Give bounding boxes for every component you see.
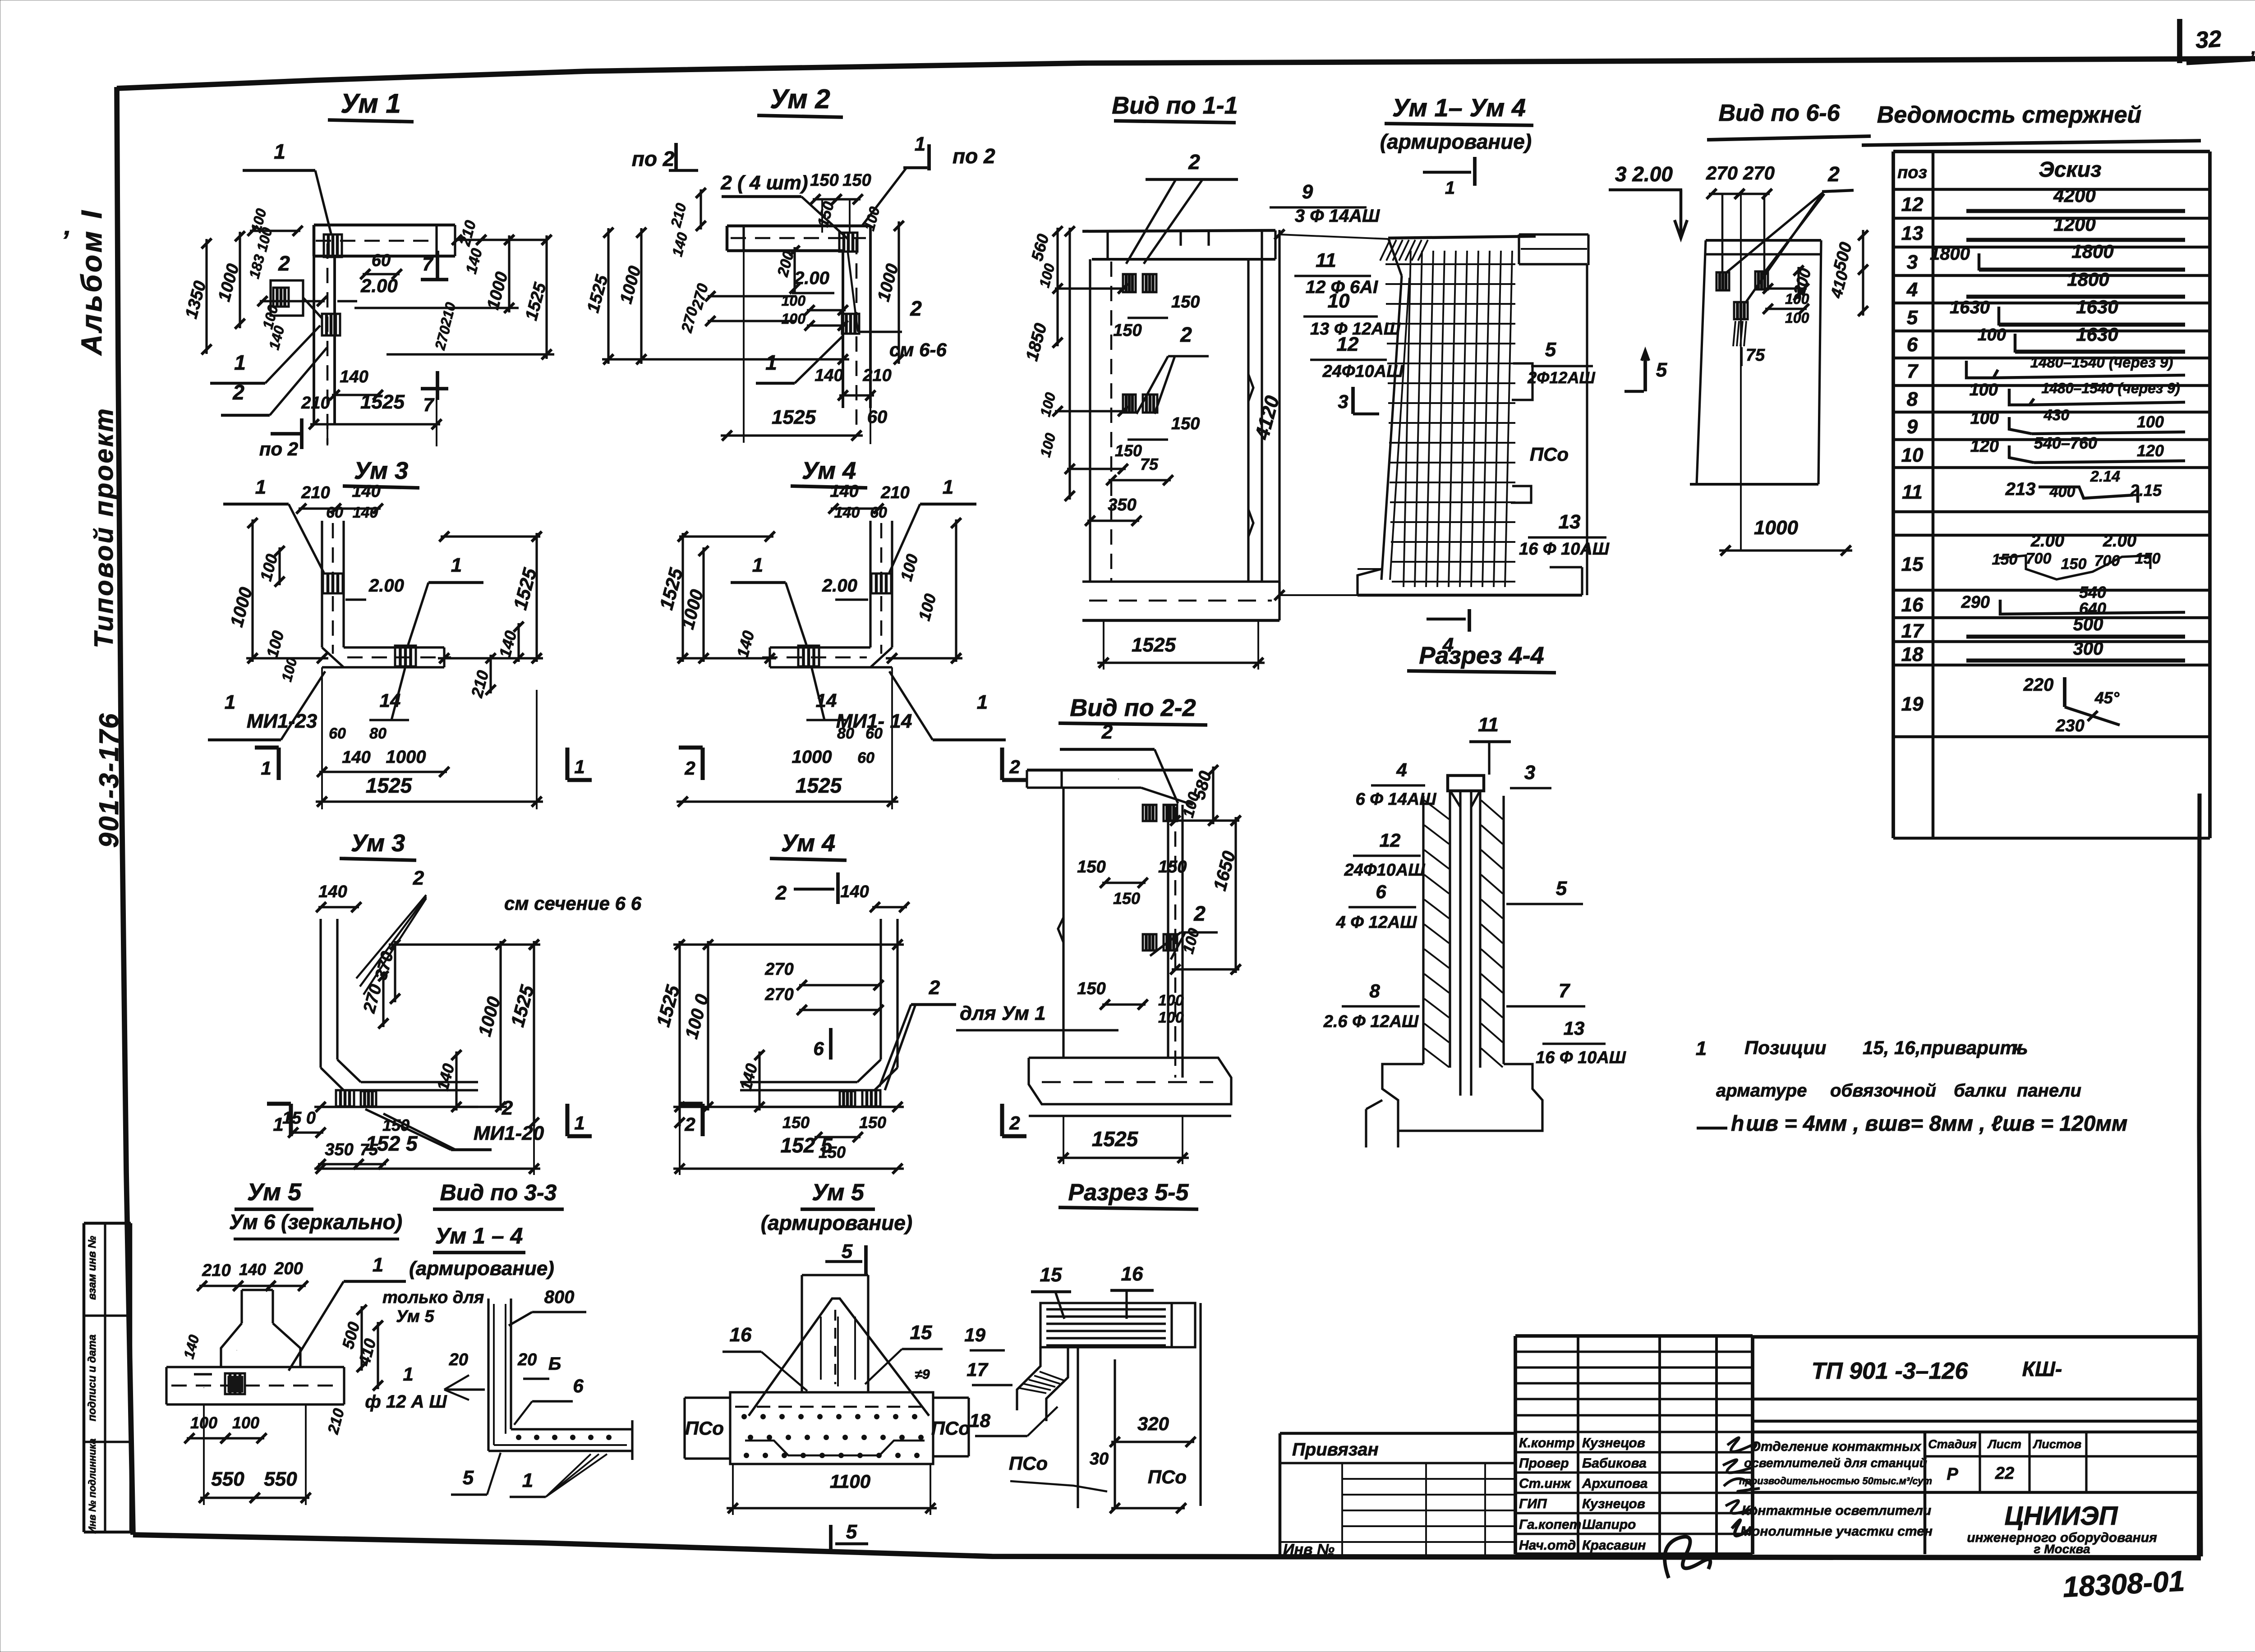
svg-text:1: 1	[1696, 1037, 1707, 1060]
svg-text:150: 150	[782, 1113, 810, 1132]
svg-text:1: 1	[1445, 178, 1455, 198]
svg-text:60: 60	[329, 725, 346, 742]
svg-text:(армирование): (армирование)	[409, 1257, 554, 1280]
svg-text:60: 60	[857, 749, 874, 766]
svg-text:см сечение 6 6: см сечение 6 6	[504, 893, 642, 914]
svg-text:901-3-176: 901-3-176	[94, 712, 124, 848]
svg-text:Бабикова: Бабикова	[1582, 1456, 1647, 1471]
svg-text:540: 540	[2079, 583, 2106, 601]
svg-text:150: 150	[1115, 441, 1142, 460]
svg-text:100: 100	[1970, 409, 1999, 428]
svg-text:ЦНИИЭП: ЦНИИЭП	[2004, 1501, 2118, 1531]
svg-text:8: 8	[1369, 980, 1380, 1001]
svg-text:Ум 2: Ум 2	[770, 84, 830, 114]
svg-text:80: 80	[369, 725, 387, 742]
svg-text:9: 9	[1302, 181, 1313, 203]
svg-text:1: 1	[261, 757, 271, 779]
svg-text:Контактные осветлители: Контактные осветлители	[1742, 1503, 1931, 1518]
svg-text:Стадия: Стадия	[1928, 1437, 1977, 1451]
svg-text:18: 18	[1901, 643, 1924, 665]
svg-text:для Ум 1: для Ум 1	[960, 1002, 1046, 1024]
svg-text:100: 100	[1158, 1009, 1184, 1026]
svg-text:16: 16	[730, 1324, 752, 1346]
svg-text:19: 19	[964, 1324, 985, 1345]
svg-text:2: 2	[1827, 162, 1840, 186]
svg-text:взам инв №: взам инв №	[86, 1236, 98, 1300]
svg-text:2.14: 2.14	[2090, 468, 2120, 485]
svg-text:140: 140	[840, 882, 869, 901]
svg-text:32: 32	[2195, 26, 2223, 54]
svg-text:1: 1	[373, 1254, 383, 1276]
svg-text:Га.копет: Га.копет	[1519, 1517, 1581, 1532]
svg-text:100: 100	[2137, 413, 2164, 431]
svg-text:140: 140	[342, 748, 370, 767]
svg-text:,: ,	[2250, 38, 2255, 58]
svg-text:1: 1	[574, 1112, 584, 1133]
svg-text:5: 5	[842, 1240, 853, 1262]
svg-text:ГИП: ГИП	[1519, 1496, 1547, 1511]
svg-text:Ум 3: Ум 3	[351, 830, 405, 857]
svg-text:Ум 1– Ум 4: Ум 1– Ум 4	[1392, 93, 1526, 122]
svg-text:2: 2	[232, 381, 244, 404]
svg-text:ТП 901 -3–126: ТП 901 -3–126	[1812, 1358, 1969, 1384]
svg-text:2 ( 4 шт): 2 ( 4 шт)	[720, 172, 808, 194]
svg-text:152 5: 152 5	[365, 1132, 418, 1155]
svg-text:2: 2	[684, 1114, 695, 1135]
svg-text:Нач.отд: Нач.отд	[1519, 1538, 1576, 1553]
svg-text:300: 300	[2073, 639, 2103, 659]
svg-text:150: 150	[859, 1113, 886, 1132]
svg-text:16: 16	[1121, 1263, 1143, 1285]
svg-text:120: 120	[2137, 441, 2164, 460]
svg-text:17: 17	[966, 1359, 988, 1380]
svg-text:3: 3	[1907, 251, 1918, 273]
svg-text:270: 270	[1743, 162, 1775, 184]
svg-text:9: 9	[1907, 416, 1918, 438]
svg-text:140: 140	[815, 366, 843, 385]
svg-text:Ведомость стержней: Ведомость стержней	[1877, 102, 2142, 128]
svg-text:Отделение контактных: Отделение контактных	[1750, 1439, 1922, 1454]
svg-text:2.00: 2.00	[822, 576, 857, 596]
svg-text:10: 10	[1901, 444, 1924, 466]
svg-text:550: 550	[211, 1468, 244, 1490]
svg-text:Ум 6 (зеркально): Ум 6 (зеркально)	[229, 1210, 402, 1234]
svg-text:150: 150	[1171, 293, 1200, 312]
svg-text:осветлителей для станций: осветлителей для станций	[1744, 1456, 1927, 1470]
svg-text:60: 60	[865, 725, 883, 742]
svg-text:1100: 1100	[830, 1471, 870, 1492]
svg-text:Кузнецов: Кузнецов	[1582, 1436, 1645, 1450]
svg-text:230: 230	[2055, 716, 2084, 735]
svg-text:Ум 3: Ум 3	[354, 457, 408, 484]
svg-text:150: 150	[1171, 414, 1200, 433]
svg-text:400: 400	[2049, 483, 2076, 500]
svg-text:150: 150	[1113, 889, 1140, 908]
svg-text:24Ф10АШ: 24Ф10АШ	[1322, 362, 1404, 381]
svg-text:1: 1	[255, 476, 266, 498]
svg-text:1000: 1000	[1754, 517, 1798, 539]
svg-text:4200: 4200	[2053, 185, 2095, 206]
svg-text:24Ф10АШ: 24Ф10АШ	[1344, 861, 1426, 880]
svg-text:2.00: 2.00	[2103, 532, 2136, 551]
svg-text:1: 1	[574, 756, 584, 777]
svg-text:8: 8	[1907, 388, 1918, 410]
svg-text:7: 7	[422, 253, 433, 275]
svg-text:18: 18	[969, 1410, 990, 1431]
svg-text:22: 22	[1995, 1464, 2014, 1483]
svg-text:Провер: Провер	[1519, 1456, 1569, 1471]
svg-text:Р: Р	[1947, 1465, 1958, 1484]
svg-text:1525: 1525	[360, 391, 405, 413]
svg-text:КШ-: КШ-	[2022, 1357, 2062, 1381]
svg-text:5: 5	[1907, 307, 1918, 329]
svg-text:2: 2	[910, 297, 922, 320]
svg-text:ПСо: ПСо	[931, 1418, 970, 1439]
svg-text:2.00: 2.00	[794, 268, 829, 288]
svg-text:1: 1	[915, 133, 925, 155]
svg-text:12: 12	[1380, 830, 1401, 851]
svg-text:100: 100	[1978, 326, 2006, 344]
svg-text:7: 7	[1559, 980, 1571, 1002]
svg-text:75: 75	[1140, 455, 1159, 473]
svg-text:5: 5	[463, 1467, 474, 1489]
svg-text:150: 150	[2135, 550, 2161, 567]
svg-text:16 Ф 10АШ: 16 Ф 10АШ	[1519, 540, 1610, 559]
svg-text:Монолитные участки стен: Монолитные участки стен	[1740, 1524, 1933, 1539]
svg-text:140: 140	[318, 882, 347, 901]
svg-text:2: 2	[929, 977, 940, 999]
svg-text:Вид по 3-3: Вид по 3-3	[440, 1180, 557, 1205]
svg-text:Листов: Листов	[2033, 1437, 2082, 1451]
svg-text:220: 220	[2023, 675, 2054, 695]
svg-text:Вид по 2-2: Вид по 2-2	[1070, 694, 1196, 721]
svg-text:Ум 5: Ум 5	[247, 1179, 302, 1206]
svg-text:Альбом I: Альбом I	[75, 208, 108, 356]
svg-text:1480–1540 (через 9): 1480–1540 (через 9)	[2030, 354, 2173, 371]
svg-text:210: 210	[301, 483, 330, 502]
svg-text:2: 2	[775, 882, 787, 904]
svg-text:213: 213	[2005, 479, 2036, 499]
svg-text:5: 5	[1556, 877, 1567, 899]
svg-text:540–760: 540–760	[2034, 434, 2097, 452]
svg-text:5: 5	[846, 1521, 857, 1543]
svg-text:150: 150	[1077, 858, 1105, 876]
svg-text:210: 210	[862, 366, 891, 385]
svg-text:‚: ‚	[64, 210, 72, 240]
svg-text:19: 19	[1901, 693, 1924, 715]
svg-text:120: 120	[1970, 437, 1999, 456]
svg-text:Привязан: Привязан	[1292, 1440, 1379, 1459]
svg-text:10: 10	[1328, 290, 1350, 312]
svg-text:30: 30	[1090, 1450, 1109, 1468]
svg-text:по 2: по 2	[953, 144, 995, 168]
svg-text:13: 13	[1901, 222, 1924, 244]
svg-text:по 2: по 2	[259, 438, 298, 459]
svg-text:1000: 1000	[386, 747, 426, 767]
svg-text:140: 140	[352, 482, 380, 501]
svg-text:75: 75	[1746, 346, 1765, 365]
svg-text:60: 60	[372, 251, 391, 270]
svg-text:20: 20	[449, 1350, 468, 1369]
svg-text:обвязочной: обвязочной	[1830, 1081, 1936, 1101]
svg-text:Красавин: Красавин	[1582, 1538, 1646, 1553]
svg-text:430: 430	[2043, 407, 2070, 424]
svg-text:Вид по 1-1: Вид по 1-1	[1112, 92, 1238, 119]
svg-text:2: 2	[1101, 721, 1113, 743]
svg-text:1800: 1800	[2067, 269, 2109, 290]
svg-text:100: 100	[1785, 310, 1809, 326]
svg-text:100: 100	[782, 293, 806, 309]
svg-text:80: 80	[837, 725, 854, 742]
svg-text:18308-01: 18308-01	[2062, 1565, 2186, 1603]
svg-text:60: 60	[326, 504, 343, 521]
svg-text:по 2: по 2	[632, 147, 675, 170]
svg-text:350: 350	[1108, 496, 1136, 514]
svg-text:4: 4	[1396, 759, 1407, 780]
svg-text:панели: панели	[2017, 1081, 2081, 1101]
svg-text:150: 150	[1158, 858, 1187, 876]
svg-text:Типовой проект: Типовой проект	[89, 407, 119, 648]
svg-text:140: 140	[834, 504, 860, 521]
svg-text:к: к	[2012, 1037, 2023, 1058]
svg-text:арматуре: арматуре	[1716, 1081, 1807, 1101]
svg-text:Разрез 4-4: Разрез 4-4	[1419, 642, 1544, 669]
svg-text:Позиции: Позиции	[1744, 1037, 1826, 1058]
svg-text:290: 290	[1961, 593, 1990, 612]
svg-text:≠9: ≠9	[915, 1367, 930, 1382]
svg-text:К.контр: К.контр	[1519, 1436, 1574, 1450]
svg-text:Б: Б	[548, 1354, 561, 1374]
svg-text:2: 2	[413, 867, 424, 889]
svg-text:2.00: 2.00	[368, 576, 404, 596]
svg-text:200: 200	[274, 1259, 303, 1278]
svg-text:Инв №: Инв №	[1283, 1541, 1335, 1558]
svg-text:балки: балки	[1954, 1081, 2006, 1101]
svg-text:1630: 1630	[2076, 296, 2118, 317]
svg-text:приварить: приварить	[1920, 1037, 2028, 1058]
svg-text:2.6 Ф 12АШ: 2.6 Ф 12АШ	[1323, 1012, 1419, 1031]
svg-text:Кузнецов: Кузнецов	[1582, 1496, 1645, 1511]
svg-text:3: 3	[1524, 762, 1535, 784]
svg-text:ПСо: ПСо	[1530, 444, 1569, 465]
svg-text:1: 1	[522, 1469, 533, 1491]
svg-text:2: 2	[1009, 1112, 1020, 1133]
svg-text:ПСо: ПСо	[685, 1418, 724, 1439]
svg-text:3: 3	[1338, 391, 1348, 412]
svg-text:Разрез 5-5: Разрез 5-5	[1068, 1179, 1189, 1206]
svg-text:1800: 1800	[1930, 244, 1970, 264]
svg-text:производительностью 50тыс.м³/с: производительностью 50тыс.м³/сут	[1739, 1475, 1932, 1487]
svg-text:210: 210	[301, 394, 330, 413]
svg-text:1: 1	[403, 1363, 413, 1385]
svg-text:100: 100	[1970, 381, 1998, 399]
svg-text:Ум 5: Ум 5	[812, 1179, 865, 1206]
svg-text:2: 2	[1188, 150, 1200, 174]
svg-text:1: 1	[752, 554, 763, 576]
svg-text:100: 100	[782, 311, 806, 327]
svg-text:Архипова: Архипова	[1582, 1476, 1648, 1491]
svg-text:20: 20	[517, 1350, 537, 1369]
svg-text:800: 800	[544, 1287, 575, 1307]
svg-text:2: 2	[1180, 323, 1192, 346]
svg-text:13: 13	[1559, 511, 1581, 533]
svg-text:г Москва: г Москва	[2034, 1542, 2090, 1556]
svg-text:150: 150	[1077, 979, 1105, 998]
svg-text:1525: 1525	[1132, 634, 1176, 656]
svg-text:1525: 1525	[772, 406, 816, 428]
svg-text:6 Ф 14АШ: 6 Ф 14АШ	[1356, 790, 1437, 809]
svg-text:270: 270	[764, 960, 793, 979]
svg-text:150: 150	[1992, 551, 2018, 568]
svg-text:(армирование): (армирование)	[761, 1211, 912, 1234]
svg-text:Вид по 6-6: Вид по 6-6	[1718, 100, 1840, 126]
svg-text:2Ф12АШ: 2Ф12АШ	[1527, 368, 1595, 387]
svg-text:6: 6	[813, 1038, 824, 1059]
svg-text:17: 17	[1901, 620, 1924, 642]
svg-text:1480–1540 (через 9): 1480–1540 (через 9)	[2041, 380, 2180, 396]
svg-text:6: 6	[1376, 881, 1386, 902]
svg-text:(армирование): (армирование)	[1380, 130, 1532, 153]
svg-text:Ст.инж: Ст.инж	[1519, 1476, 1572, 1491]
svg-text:210: 210	[880, 483, 909, 502]
svg-text:150: 150	[810, 171, 838, 190]
svg-text:Ум 1: Ум 1	[341, 88, 401, 119]
svg-text:15, 16,: 15, 16,	[1863, 1037, 1920, 1058]
svg-text:Ум 4: Ум 4	[802, 457, 856, 484]
svg-text:12: 12	[1337, 333, 1359, 355]
svg-text:6: 6	[573, 1375, 584, 1396]
svg-text:1: 1	[765, 351, 777, 374]
svg-text:1000: 1000	[792, 747, 832, 767]
svg-text:11: 11	[1902, 481, 1923, 503]
svg-text:МИ1-23: МИ1-23	[247, 710, 317, 732]
svg-text:1: 1	[234, 351, 246, 374]
svg-text:15 0: 15 0	[282, 1109, 316, 1128]
svg-text:15: 15	[1901, 553, 1924, 575]
svg-text:2.00: 2.00	[2030, 532, 2064, 551]
svg-text:320: 320	[1137, 1413, 1169, 1434]
svg-text:270: 270	[764, 985, 793, 1004]
svg-text:11: 11	[1316, 249, 1336, 271]
svg-text:ф 12 А Ш: ф 12 А Ш	[365, 1392, 447, 1412]
svg-text:1630: 1630	[2076, 324, 2118, 345]
svg-text:350: 350	[325, 1140, 353, 1159]
svg-text:150: 150	[1113, 321, 1141, 340]
svg-text:550: 550	[264, 1468, 297, 1490]
svg-text:2: 2	[1193, 902, 1206, 925]
svg-text:45°: 45°	[2094, 688, 2120, 707]
svg-text:ПСо: ПСо	[1148, 1466, 1187, 1487]
svg-text:2: 2	[1009, 756, 1020, 777]
svg-text:1: 1	[451, 554, 462, 576]
svg-text:1630: 1630	[1950, 298, 1990, 317]
svg-text:700: 700	[2026, 550, 2052, 567]
svg-text:1525: 1525	[796, 774, 842, 797]
svg-text:5: 5	[1545, 339, 1556, 361]
svg-text:4 Ф 12АШ: 4 Ф 12АШ	[1336, 913, 1417, 932]
svg-text:3 Ф 14АШ: 3 Ф 14АШ	[1295, 206, 1380, 226]
svg-text:1525: 1525	[366, 774, 413, 797]
svg-text:7: 7	[1907, 360, 1919, 382]
svg-text:1: 1	[943, 476, 953, 498]
svg-text:13: 13	[1564, 1018, 1585, 1039]
svg-text:100: 100	[232, 1413, 259, 1432]
svg-text:Эскиз: Эскиз	[2039, 158, 2101, 182]
svg-text:подписи и дата: подписи и дата	[86, 1335, 98, 1421]
svg-text:11: 11	[1478, 714, 1499, 736]
svg-text:2: 2	[684, 757, 695, 779]
svg-text:16: 16	[1901, 594, 1924, 616]
svg-text:1525: 1525	[1092, 1127, 1139, 1151]
svg-text:Ум 5: Ум 5	[396, 1307, 434, 1326]
svg-text:140: 140	[340, 367, 368, 386]
svg-text:6: 6	[1907, 334, 1918, 356]
svg-text:ПСо: ПСо	[1009, 1453, 1048, 1474]
svg-text:150: 150	[842, 171, 871, 190]
svg-text:1: 1	[225, 691, 235, 713]
svg-text:Ум 1 – 4: Ум 1 – 4	[435, 1223, 523, 1248]
svg-text:1: 1	[273, 1114, 283, 1135]
svg-text:1800: 1800	[2071, 241, 2113, 262]
svg-text:Шапиро: Шапиро	[1582, 1517, 1636, 1532]
svg-text:500: 500	[2073, 615, 2103, 634]
svg-text:5: 5	[1656, 359, 1667, 381]
svg-text:100: 100	[1158, 992, 1184, 1009]
svg-text:Ум 4: Ум 4	[781, 830, 835, 857]
svg-text:16 Ф 10АШ: 16 Ф 10АШ	[1536, 1048, 1626, 1067]
svg-text:только для: только для	[382, 1288, 484, 1307]
svg-text:15: 15	[1040, 1264, 1062, 1286]
svg-text:152 5: 152 5	[780, 1133, 833, 1157]
svg-text:2: 2	[278, 252, 290, 275]
svg-text:1200: 1200	[2053, 214, 2095, 235]
svg-text:140: 140	[239, 1260, 266, 1279]
svg-text:1: 1	[274, 140, 285, 163]
svg-text:Лист: Лист	[1987, 1437, 2021, 1451]
svg-text:12: 12	[1901, 193, 1924, 216]
svg-text:h шв = 4мм , вшв= 8мм , ℓшв =: h шв = 4мм , вшв= 8мм , ℓшв = 120мм	[1731, 1112, 2127, 1136]
svg-text:7: 7	[423, 394, 434, 415]
svg-text:210: 210	[202, 1261, 230, 1280]
svg-text:поз: поз	[1897, 163, 1927, 182]
svg-text:15: 15	[910, 1322, 932, 1344]
svg-text:150: 150	[2061, 555, 2087, 573]
svg-text:Инв № подлинника: Инв № подлинника	[87, 1438, 98, 1533]
svg-text:270: 270	[1706, 162, 1738, 184]
svg-text:4: 4	[1906, 279, 1918, 301]
svg-text:1: 1	[977, 691, 988, 713]
svg-text:2: 2	[502, 1097, 513, 1119]
svg-text:3 2.00: 3 2.00	[1615, 162, 1673, 186]
svg-text:140: 140	[830, 482, 858, 501]
svg-text:2.15: 2.15	[2130, 481, 2162, 500]
